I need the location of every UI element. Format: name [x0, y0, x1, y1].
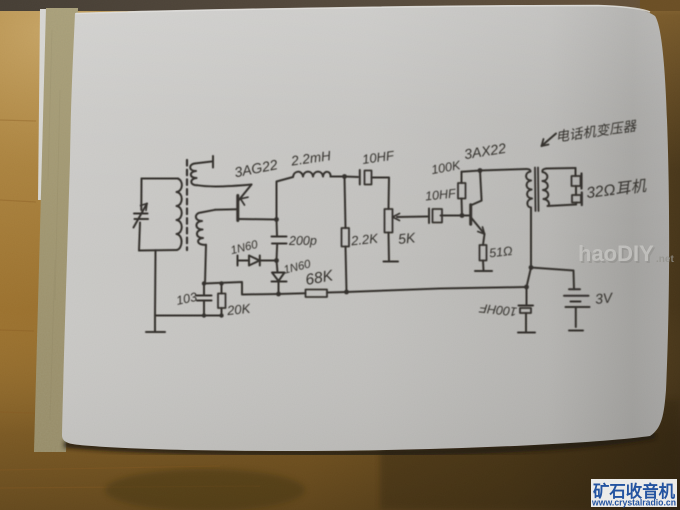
- wire tank to ground rail: [154, 250, 157, 315]
- label 3V: [594, 289, 614, 307]
- inductor L3 base winding: [196, 210, 215, 284]
- dark shadow smudge on desk bottom: [105, 469, 305, 510]
- label 200p: [288, 234, 317, 248]
- resistor 20K: [218, 284, 226, 316]
- label 20K: [225, 301, 252, 319]
- label 100K: [430, 158, 462, 177]
- wire L2 to emitter: [197, 185, 252, 187]
- wire bottom-left rail: [155, 315, 222, 317]
- antenna terminal bar: [212, 156, 214, 168]
- ground (under 51R): [475, 270, 492, 272]
- node 100HF top: [524, 285, 529, 290]
- label 1N60 first: [229, 239, 259, 257]
- the sheet of paper: [62, 5, 669, 451]
- dark strip at very top of photo: [0, 0, 680, 11]
- transistor Q1 3AG22: [238, 185, 277, 221]
- node collector Q1: [274, 217, 279, 222]
- transformer T2 primary: [526, 169, 532, 268]
- node base Q2: [460, 213, 465, 218]
- node 103 bottom: [202, 313, 206, 317]
- white sliver of underlying page at left: [38, 9, 48, 200]
- capacitor 10HF first: [345, 170, 389, 185]
- ground (under battery): [569, 330, 583, 332]
- ground (under 100HF): [518, 332, 535, 334]
- paper top edge highlight: [76, 6, 650, 14]
- diode D1 1N60: [238, 256, 277, 266]
- capacitor 103: [197, 284, 212, 316]
- ground (under 5K): [384, 261, 399, 263]
- crystalradio logo: [591, 479, 677, 508]
- transformer core dashed: [186, 160, 188, 250]
- label 32R earphone: [585, 177, 647, 202]
- resistor 100K: [458, 172, 466, 216]
- earphone 32R jack: [572, 168, 582, 205]
- watermark haoDIY.net: [578, 241, 674, 268]
- capacitor 100HF: [519, 287, 534, 332]
- label 68K: [304, 267, 335, 289]
- label 100HF: [478, 301, 518, 319]
- label 3AX22: [463, 140, 507, 162]
- label 51R: [488, 244, 513, 260]
- wire top right: [462, 169, 527, 172]
- node 103 top: [202, 281, 206, 285]
- battery 3V: [564, 289, 590, 327]
- node detector: [274, 258, 279, 263]
- inductor 2.2mH: [293, 172, 331, 177]
- label 10HF first: [361, 148, 396, 167]
- photo grain: [0, 0, 1, 1]
- wire collector node up to 2.2mH: [277, 177, 294, 220]
- label 5K: [397, 229, 416, 247]
- node top mid: [342, 174, 347, 179]
- capacitor 200p: [272, 220, 287, 261]
- node rail 2.2K: [344, 290, 349, 295]
- label 2.2mH: [289, 148, 332, 169]
- wire L3 to base: [215, 208, 237, 211]
- resistor 68K: [306, 290, 328, 298]
- inductor L2 feedback winding: [190, 162, 211, 186]
- node rail diode: [276, 292, 281, 297]
- node collector Q2: [478, 168, 483, 173]
- inductor L1 tank coil: [177, 179, 182, 251]
- diode D2 1N60: [272, 261, 287, 295]
- transformer T2 secondary: [542, 168, 576, 206]
- wire node down: [527, 268, 532, 288]
- wire 2.2mH to node: [331, 176, 345, 178]
- variable capacitor CV: [134, 179, 149, 251]
- annotation arrow: [542, 134, 557, 147]
- node transformer bottom: [529, 265, 534, 270]
- wire detector node to rail: [204, 282, 279, 295]
- wire to battery: [531, 268, 574, 290]
- label 103: [175, 290, 198, 308]
- ground (left): [146, 316, 165, 333]
- transistor Q2 3AX22: [462, 171, 485, 235]
- transformer T2 core: [535, 168, 539, 212]
- wood grain streaks: [0, 120, 260, 488]
- cardboard back cover strip: [34, 8, 78, 452]
- capacitor 10HF second: [429, 209, 462, 224]
- resistor 51R: [480, 234, 487, 271]
- wire 10HF to pot top: [388, 178, 391, 210]
- label 10HF second: [424, 186, 457, 203]
- label 2.2K: [349, 230, 379, 248]
- wire tank bottom: [139, 249, 177, 252]
- label telephone transformer: [555, 118, 639, 144]
- desk darker bottom-right zone: [380, 400, 680, 510]
- potentiometer 5K: [385, 209, 428, 261]
- resistor 2.2K: [342, 177, 350, 293]
- node 20K bottom: [219, 313, 223, 317]
- shadow under paper bottom edge: [64, 435, 655, 453]
- label 3AG22: [233, 156, 279, 180]
- node 20K top: [219, 281, 223, 285]
- wire bottom rail: [279, 287, 527, 294]
- wire tank top: [142, 178, 179, 180]
- label 1N60 second: [282, 258, 312, 276]
